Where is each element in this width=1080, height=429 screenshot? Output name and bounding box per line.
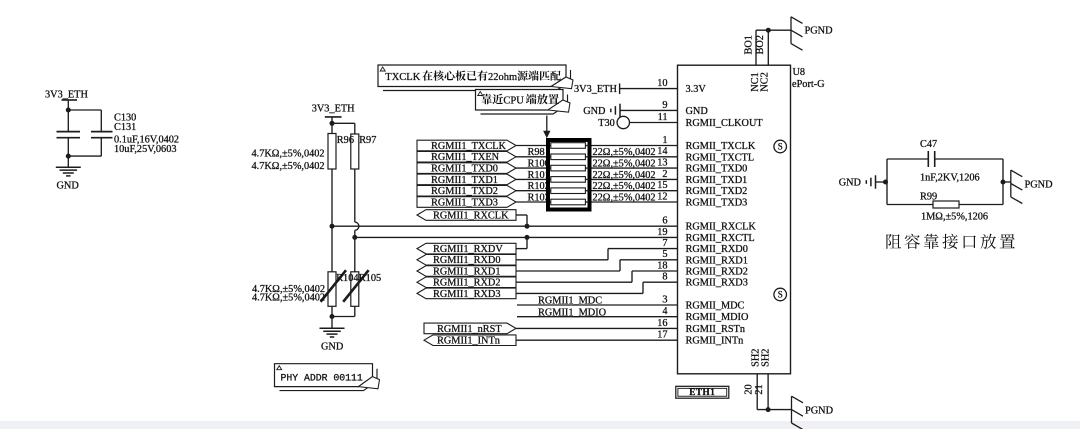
svg-text:9: 9 xyxy=(662,100,667,111)
svg-text:10: 10 xyxy=(657,78,667,89)
svg-text:4.7KΩ,±5%,0402: 4.7KΩ,±5%,0402 xyxy=(252,293,325,304)
svg-text:RGMII_TXD0: RGMII_TXD0 xyxy=(686,164,748,175)
svg-text:1nF,2KV,1206: 1nF,2KV,1206 xyxy=(920,173,980,184)
svg-text:R96: R96 xyxy=(337,135,354,146)
svg-text:RGMII_RSTn: RGMII_RSTn xyxy=(686,324,746,335)
svg-text:RGMII_TXD2: RGMII_TXD2 xyxy=(686,186,748,197)
svg-text:RGMII1_TXD3: RGMII1_TXD3 xyxy=(431,197,498,208)
svg-text:BO2: BO2 xyxy=(755,35,766,54)
svg-text:RGMII1_nRST: RGMII1_nRST xyxy=(437,324,502,335)
svg-text:ETH1: ETH1 xyxy=(689,387,715,397)
svg-text:1: 1 xyxy=(662,135,667,146)
svg-text:RGMII1_INTn: RGMII1_INTn xyxy=(437,336,500,347)
svg-text:SH2: SH2 xyxy=(750,349,761,367)
svg-text:4.7KΩ,±5%,0402: 4.7KΩ,±5%,0402 xyxy=(252,148,325,159)
svg-text:RGMII_INTn: RGMII_INTn xyxy=(686,336,744,347)
svg-text:22Ω,±5%,0402: 22Ω,±5%,0402 xyxy=(593,147,656,158)
svg-text:RGMII1_TXCLK: RGMII1_TXCLK xyxy=(431,141,506,152)
svg-text:17: 17 xyxy=(657,330,667,341)
svg-text:GND: GND xyxy=(686,106,709,117)
svg-text:5: 5 xyxy=(662,249,667,260)
svg-text:RGMII_TXCTL: RGMII_TXCTL xyxy=(686,152,755,163)
svg-text:21: 21 xyxy=(754,384,765,394)
svg-text:RGMII_RXCTL: RGMII_RXCTL xyxy=(686,233,755,244)
svg-text:15: 15 xyxy=(657,180,667,191)
svg-text:RGMII_MDIO: RGMII_MDIO xyxy=(686,312,749,323)
svg-text:22Ω,±5%,0402: 22Ω,±5%,0402 xyxy=(593,181,656,192)
svg-text:11: 11 xyxy=(658,112,668,123)
svg-text:22Ω,±5%,0402: 22Ω,±5%,0402 xyxy=(593,170,656,181)
svg-text:RGMII1_RXD0: RGMII1_RXD0 xyxy=(433,255,501,266)
svg-text:8: 8 xyxy=(662,272,667,283)
svg-text:3V3_ETH: 3V3_ETH xyxy=(574,84,617,95)
svg-text:13: 13 xyxy=(657,158,667,169)
svg-text:PGND: PGND xyxy=(1025,179,1054,190)
svg-text:3V3_ETH: 3V3_ETH xyxy=(45,89,88,100)
svg-text:16: 16 xyxy=(657,318,667,329)
svg-text:SH2: SH2 xyxy=(761,349,772,367)
svg-text:1MΩ,±5%,1206: 1MΩ,±5%,1206 xyxy=(921,211,988,222)
svg-text:RGMII_TXD1: RGMII_TXD1 xyxy=(686,175,748,186)
svg-text:RGMII_RXD0: RGMII_RXD0 xyxy=(686,244,748,255)
svg-text:CPU: CPU xyxy=(503,95,524,106)
svg-text:14: 14 xyxy=(657,146,667,157)
svg-text:RGMII1_TXD2: RGMII1_TXD2 xyxy=(431,186,498,197)
svg-text:RGMII1_RXD1: RGMII1_RXD1 xyxy=(433,266,501,277)
svg-text:RGMII1_RXCLK: RGMII1_RXCLK xyxy=(433,210,509,221)
svg-text:3V3_ETH: 3V3_ETH xyxy=(312,104,355,115)
svg-text:RGMII_RXD2: RGMII_RXD2 xyxy=(686,267,748,278)
svg-text:22Ω,±5%,0402: 22Ω,±5%,0402 xyxy=(593,192,656,203)
svg-text:PHY ADDR 00111: PHY ADDR 00111 xyxy=(281,372,363,383)
svg-text:RGMII1_MDC: RGMII1_MDC xyxy=(538,296,602,307)
svg-text:RGMII1_TXD1: RGMII1_TXD1 xyxy=(431,175,498,186)
svg-text:22ohm: 22ohm xyxy=(488,72,517,83)
svg-text:RGMII1_MDIO: RGMII1_MDIO xyxy=(538,307,607,318)
svg-text:18: 18 xyxy=(657,260,667,271)
svg-text:GND: GND xyxy=(57,180,80,191)
svg-text:U8: U8 xyxy=(793,67,806,78)
svg-text:BO1: BO1 xyxy=(743,35,754,54)
svg-text:2: 2 xyxy=(662,169,667,180)
svg-text:RGMII_RXD1: RGMII_RXD1 xyxy=(686,255,748,266)
svg-text:S: S xyxy=(778,142,783,152)
svg-text:R98: R98 xyxy=(528,147,545,158)
svg-text:6: 6 xyxy=(662,216,667,227)
svg-text:R97: R97 xyxy=(359,135,376,146)
svg-text:PGND: PGND xyxy=(805,26,834,37)
svg-text:R105: R105 xyxy=(359,273,381,284)
svg-text:C131: C131 xyxy=(114,122,136,133)
svg-text:RGMII_RXCLK: RGMII_RXCLK xyxy=(686,222,757,233)
svg-text:4.7KΩ,±5%,0402: 4.7KΩ,±5%,0402 xyxy=(252,161,325,172)
svg-text:3.3V: 3.3V xyxy=(686,84,707,95)
svg-text:12: 12 xyxy=(657,191,667,202)
svg-text:RGMII_RXD3: RGMII_RXD3 xyxy=(686,278,748,289)
svg-text:RGMII1_TXD0: RGMII1_TXD0 xyxy=(431,164,498,175)
svg-text:20: 20 xyxy=(743,384,754,394)
svg-text:ePort-G: ePort-G xyxy=(792,79,825,90)
svg-text:NC2: NC2 xyxy=(760,72,771,91)
svg-text:3: 3 xyxy=(662,294,667,305)
svg-text:GND: GND xyxy=(839,178,862,189)
svg-text:RGMII_TXCLK: RGMII_TXCLK xyxy=(686,141,756,152)
svg-text:22Ω,±5%,0402: 22Ω,±5%,0402 xyxy=(593,159,656,170)
svg-text:RGMII1_TXEN: RGMII1_TXEN xyxy=(431,152,500,163)
svg-text:RGMII1_RXD2: RGMII1_RXD2 xyxy=(433,278,501,289)
svg-text:TXCLK: TXCLK xyxy=(385,72,420,83)
svg-text:R99: R99 xyxy=(920,192,937,203)
svg-text:GND: GND xyxy=(583,106,606,117)
svg-text:RGMII_TXD3: RGMII_TXD3 xyxy=(686,198,748,209)
svg-text:RGMII1_RXD3: RGMII1_RXD3 xyxy=(433,289,501,300)
svg-text:PGND: PGND xyxy=(805,406,834,417)
svg-text:S: S xyxy=(778,290,783,300)
svg-text:RGMII_MDC: RGMII_MDC xyxy=(686,301,745,312)
svg-text:19: 19 xyxy=(657,227,667,238)
svg-text:10uF,25V,0603: 10uF,25V,0603 xyxy=(114,144,177,155)
svg-text:C47: C47 xyxy=(920,139,937,150)
svg-text:RGMII_CLKOUT: RGMII_CLKOUT xyxy=(686,118,764,129)
svg-text:T30: T30 xyxy=(598,118,615,129)
svg-text:GND: GND xyxy=(321,342,344,353)
svg-text:R104: R104 xyxy=(336,273,358,284)
svg-text:RGMII1_RXDV: RGMII1_RXDV xyxy=(433,244,503,255)
svg-text:7: 7 xyxy=(662,238,667,249)
svg-text:4: 4 xyxy=(662,306,667,317)
